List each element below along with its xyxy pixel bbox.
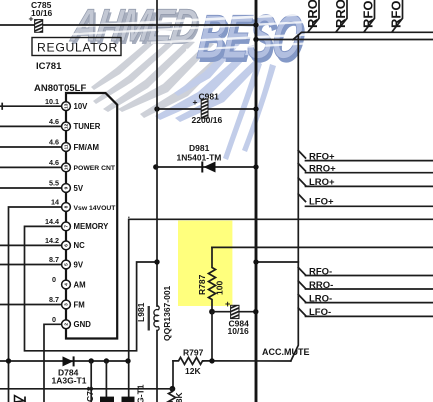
wire pin FM — [0, 295, 62, 304]
svg-text:NC: NC — [74, 241, 86, 250]
svg-text:RRO+: RRO+ — [309, 163, 336, 174]
svg-text:RRO+: RRO+ — [333, 0, 348, 28]
label C786 rotated partial — [85, 386, 95, 402]
wire stub x91 down — [90, 361, 92, 402]
svg-text:G-T1: G-T1 — [136, 384, 146, 402]
svg-text:14.2: 14.2 — [45, 236, 59, 245]
svg-text:13: 13 — [64, 103, 70, 109]
svg-text:QQR1367-001: QQR1367-001 — [162, 285, 172, 341]
svg-text:GND: GND — [74, 320, 92, 329]
svg-text:7: 7 — [64, 225, 70, 228]
svg-text:2: 2 — [64, 323, 70, 326]
svg-text:TUNER: TUNER — [74, 122, 101, 131]
svg-text:12: 12 — [64, 123, 70, 129]
svg-text:RFO-: RFO- — [309, 267, 332, 278]
label 1A3G-T1 rotated partial — [136, 384, 146, 402]
svg-text:FM: FM — [74, 300, 85, 309]
svg-text:RRO-: RRO- — [309, 280, 333, 291]
svg-text:LFO-: LFO- — [309, 307, 331, 318]
diode D981 — [153, 143, 259, 173]
wire pin GND — [44, 315, 62, 402]
highlight R787 yellow — [178, 221, 232, 307]
svg-text:L981: L981 — [136, 302, 146, 322]
wire stub x106 down — [105, 361, 107, 402]
svg-text:RFO+: RFO+ — [361, 0, 376, 28]
resistor R787 — [197, 247, 433, 311]
svg-text:D981: D981 — [189, 143, 210, 153]
svg-text:+: + — [29, 14, 34, 24]
svg-text:POWER CNT: POWER CNT — [74, 165, 116, 172]
svg-text:14: 14 — [51, 198, 59, 207]
svg-text:10/16: 10/16 — [31, 8, 53, 18]
connector entry LFO+ — [298, 194, 433, 208]
svg-text:11: 11 — [64, 144, 70, 149]
svg-text:LRO-: LRO- — [309, 293, 332, 304]
wire C984 node down — [211, 312, 213, 361]
svg-text:ACC.MUTE: ACC.MUTE — [262, 347, 310, 357]
svg-text:2200/16: 2200/16 — [192, 115, 223, 125]
connector entry LFO- — [298, 307, 433, 318]
node flag RRO a — [305, 0, 320, 32]
resistor R788 partial — [169, 389, 185, 402]
svg-text:REGULATOR: REGULATOR — [37, 41, 118, 55]
svg-text:Vsw 14VOUT: Vsw 14VOUT — [74, 205, 117, 212]
connector entry RRO+ — [298, 163, 433, 174]
node R787 bottom — [209, 309, 215, 315]
svg-text:0: 0 — [52, 315, 56, 324]
wire right rail y39.5 — [256, 39, 433, 41]
resistor R797 — [173, 348, 204, 389]
wire bus stub y262 — [253, 259, 298, 264]
svg-text:MEMORY: MEMORY — [74, 222, 110, 231]
svg-text:RFO+: RFO+ — [309, 151, 335, 162]
svg-text:R787: R787 — [197, 274, 207, 295]
capacitor bottom partial 1 — [100, 397, 114, 402]
svg-text:+: + — [225, 299, 230, 309]
bus vertical thick — [255, 0, 258, 402]
label AN80T05LF — [34, 83, 86, 94]
wire pin MEMORY — [25, 217, 155, 351]
svg-text:4.6: 4.6 — [49, 117, 59, 126]
wire pin 9V — [0, 255, 62, 264]
capacitor C785 — [29, 0, 53, 32]
wire pin NC — [0, 236, 62, 245]
svg-text:9: 9 — [64, 186, 70, 189]
wire vertical net x157 — [156, 0, 158, 402]
svg-text:8.7: 8.7 — [49, 255, 59, 264]
svg-text:3: 3 — [64, 303, 70, 306]
svg-text:100: 100 — [215, 281, 225, 295]
wire pin 5V — [0, 179, 62, 188]
svg-text:12K: 12K — [185, 366, 201, 376]
capacitor C981 — [154, 92, 258, 126]
svg-text:IC781: IC781 — [36, 61, 62, 72]
svg-text:4: 4 — [64, 283, 70, 286]
svg-text:LRO+: LRO+ — [309, 177, 335, 188]
label pin AM voltage — [52, 275, 56, 284]
svg-text:10/16: 10/16 — [228, 326, 250, 336]
wire pin Vsw — [9, 198, 62, 402]
svg-text:5.5: 5.5 — [49, 179, 59, 188]
wire ACC.MUTE — [204, 347, 310, 364]
node flag RFO b — [389, 0, 404, 32]
svg-text:8: 8 — [64, 205, 70, 208]
svg-text:AM: AM — [74, 280, 86, 289]
wire rail y388.8 — [0, 388, 172, 390]
wire pin FM/AM — [0, 138, 62, 147]
svg-text:RFO+: RFO+ — [389, 0, 404, 28]
IC U781 regulator AN80T05LF body — [66, 93, 117, 339]
REGULATOR title box — [32, 38, 121, 56]
connector entry RFO+ — [298, 151, 433, 163]
node flag RRO b — [333, 0, 348, 32]
svg-text:C981: C981 — [199, 92, 220, 102]
connector entry LRO- — [298, 293, 433, 304]
connector entry RRO- — [298, 280, 433, 291]
capacitor C984 — [212, 299, 259, 336]
wire connector box left edge — [291, 35, 299, 361]
diode partial bottom-left — [15, 396, 26, 402]
diode D784 — [0, 356, 128, 385]
svg-text:5V: 5V — [74, 184, 84, 193]
node flag RFO a — [361, 0, 376, 32]
connector entry RFO- — [298, 267, 433, 278]
svg-text:10: 10 — [64, 164, 70, 170]
wire pin POWER CNT — [0, 158, 62, 167]
label IC781 — [36, 61, 62, 72]
svg-text:LFO+: LFO+ — [309, 197, 334, 208]
svg-text:+: + — [193, 97, 198, 107]
node L981 top — [154, 259, 159, 264]
wire pin 10V — [0, 97, 62, 109]
svg-text:0: 0 — [52, 275, 56, 284]
svg-text:14.4: 14.4 — [45, 217, 59, 226]
svg-text:4.6: 4.6 — [49, 138, 59, 147]
svg-text:FM/AM: FM/AM — [74, 143, 100, 152]
connector entry LRO+ — [298, 177, 433, 188]
svg-text:6: 6 — [64, 244, 70, 247]
capacitor bottom partial 2 — [122, 397, 135, 402]
svg-text:R797: R797 — [183, 348, 204, 358]
node bus-top-A — [253, 22, 258, 27]
wire pin TUNER — [0, 117, 62, 126]
svg-text:RRO+: RRO+ — [305, 0, 320, 28]
svg-text:38K: 38K — [174, 392, 184, 402]
wire bevel to upper rail — [293, 32, 433, 39]
svg-text:1A3G-T1: 1A3G-T1 — [52, 375, 87, 385]
svg-text:9V: 9V — [74, 260, 84, 269]
IC pin circles column — [62, 102, 117, 329]
watermark AHMED BESO — [58, 0, 310, 160]
svg-text:C78: C78 — [85, 386, 95, 402]
svg-text:4.6: 4.6 — [49, 158, 59, 167]
wire top rail y25 — [0, 24, 256, 26]
svg-text:8.7: 8.7 — [49, 295, 59, 304]
node R797 left bottom — [170, 386, 176, 392]
svg-text:10V: 10V — [74, 102, 89, 111]
inductor L981 — [136, 285, 172, 341]
node D784 wire junctions — [6, 358, 131, 363]
node bus-top-B — [253, 37, 258, 42]
wire long rail y217.5 — [128, 217, 433, 402]
svg-text:5: 5 — [64, 263, 70, 266]
svg-text:1N5401-TM: 1N5401-TM — [177, 153, 222, 163]
svg-text:10.1: 10.1 — [45, 97, 59, 106]
